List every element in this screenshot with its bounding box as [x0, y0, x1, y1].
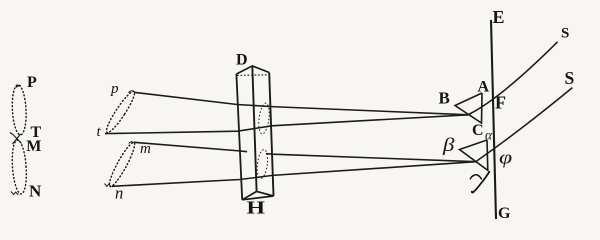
svg-text:S: S	[565, 68, 575, 88]
svg-text:φ: φ	[499, 147, 512, 168]
svg-text:α: α	[485, 128, 493, 143]
svg-text:G: G	[498, 205, 511, 222]
prism DH middle edge	[252, 66, 256, 191]
ray t	[105, 115, 469, 134]
svg-text:H: H	[247, 197, 266, 217]
prism DH bottom face	[242, 191, 273, 199]
ray n	[112, 162, 476, 187]
tick at n tip	[105, 184, 112, 187]
svg-text:N: N	[29, 182, 42, 201]
ray to S lower	[476, 88, 572, 162]
ray m	[134, 142, 476, 161]
svg-text:C: C	[472, 122, 484, 139]
prism ABC (upper small triangle)	[455, 93, 482, 123]
label gamma	[470, 172, 489, 193]
svg-text:n: n	[115, 184, 123, 203]
tick at N tip	[11, 192, 18, 195]
x mark at T	[10, 133, 22, 145]
prism DH right edge	[269, 73, 273, 197]
svg-text:E: E	[493, 7, 505, 27]
image mn (dotted ellipse slanted)	[106, 140, 138, 188]
prism beta-gamma (lower small triangle)	[460, 140, 488, 170]
svg-text:S: S	[561, 26, 569, 42]
svg-text:A: A	[478, 79, 490, 96]
hook at p-ellipse top	[129, 91, 135, 93]
ray to S upper	[469, 42, 558, 115]
svg-text:D: D	[236, 52, 248, 69]
svg-text:P: P	[27, 74, 37, 91]
prism DH top face	[236, 66, 269, 74]
image PT (dotted ellipse)	[11, 84, 27, 135]
svg-text:m: m	[140, 141, 151, 157]
board EG line	[491, 20, 496, 219]
svg-text:p: p	[110, 81, 119, 97]
svg-text:M: M	[26, 138, 41, 155]
ray p	[134, 92, 469, 115]
prism DH top back edge (dotted)	[237, 74, 268, 76]
beam spot lower (dotted ellipse in prism)	[256, 149, 269, 179]
image pt (dotted ellipse slanted)	[103, 89, 138, 135]
beam spot upper (dotted ellipse in prism)	[257, 103, 271, 135]
svg-text:F: F	[495, 93, 506, 113]
svg-text:β: β	[442, 134, 455, 156]
hook at m-ellipse top	[129, 142, 134, 144]
image MN (dotted ellipse)	[11, 140, 28, 195]
prism DH left edge	[236, 74, 242, 200]
svg-text:B: B	[439, 89, 450, 108]
tick at PT ellipse top	[16, 86, 21, 88]
